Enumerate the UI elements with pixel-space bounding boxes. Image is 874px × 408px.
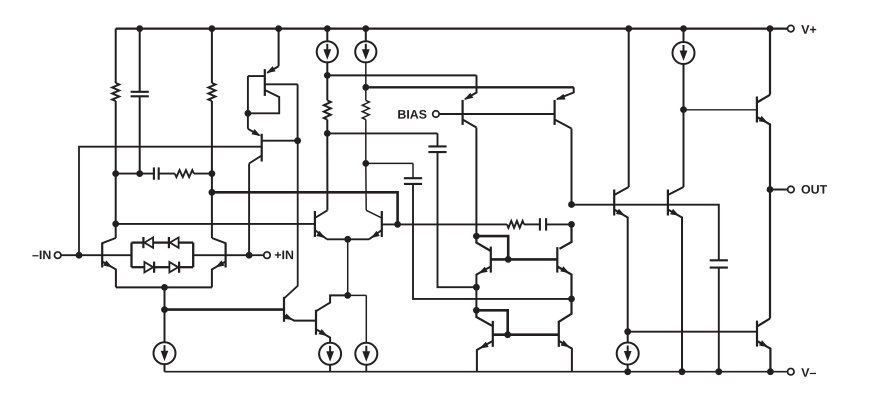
transistor Q6 (462, 100, 464, 125)
wire: R3 node to compensation cap C2 (327, 132, 437, 134)
capacitor C2 (428, 145, 446, 147)
node: Q9/C3 junction (568, 296, 575, 303)
wire: Q6/Q7 shared base (463, 113, 555, 115)
node: Q10 collector (473, 307, 480, 314)
wire: I2 node to Q6 emitter (327, 74, 476, 76)
wire: QM2 collector (683, 110, 685, 187)
wire: Q2 base to clamp network (193, 254, 225, 256)
wire: QM1 emitter to QO2 base (628, 331, 757, 333)
resistor R1 (115, 29, 117, 83)
resistor R2 (209, 25, 216, 32)
transistor Q11 (559, 299, 572, 322)
resistor R6 series (398, 223, 507, 225)
current source I5 (627, 332, 629, 343)
node: Q10 base junction (504, 331, 511, 338)
node: I4 output (680, 106, 687, 113)
wire: Q8/Q9 shared base (491, 258, 558, 261)
node: R3 bottom (324, 130, 331, 137)
current source I3 (362, 25, 369, 32)
wire: Q8 base-collector loop (476, 236, 508, 259)
transistor QM1 (613, 190, 615, 216)
node: R4 bottom (362, 160, 369, 167)
wire: V+ top supply rail (116, 27, 788, 29)
wire: QL/QR emitter bus (327, 238, 369, 240)
transistor Q3 (275, 25, 282, 32)
wire: input pair emitter bus (116, 286, 212, 288)
wire: R3 bottom to QL collector (326, 133, 328, 210)
node: Q3 collector junction (245, 110, 252, 117)
capacitor C6 (710, 259, 728, 261)
transistor QB (315, 310, 317, 335)
node: Q4 base junction (294, 137, 301, 144)
node: tail junction (161, 284, 168, 291)
transistor Q2 (225, 242, 227, 267)
wire: second stage tail (344, 292, 351, 299)
wire: node N2 to second stage (right base feed) (212, 192, 398, 224)
wire: R2 bottom to node N2 (211, 101, 213, 238)
terminal V- (788, 368, 795, 375)
node: Q8 collector (473, 233, 480, 240)
capacitor C4 series (539, 218, 541, 230)
node: I3 output (362, 84, 369, 91)
wire: Q7 collector line to C6 (572, 205, 719, 261)
wire: QR base (382, 223, 398, 225)
transistor QO2 (769, 190, 771, 319)
wire: R4 node to compensation cap C3 (366, 162, 413, 164)
diode D4 (178, 262, 180, 273)
wire: Q10/Q11 shared base (493, 333, 559, 336)
wire: Q3 collector (248, 90, 279, 113)
node: C6 bottom on rail (715, 368, 722, 375)
wire: tail down to current source I1 (164, 287, 166, 342)
resistor R3 (326, 75, 328, 100)
transistor QM2 (667, 190, 669, 216)
wire: Q1 base to clamp network (102, 254, 131, 256)
wire: inverting input to Q4 base bar (79, 147, 262, 256)
wire: Q4 collector down to +IN node (249, 156, 262, 164)
wire: first stage output to QL base (116, 223, 315, 225)
node: Q8 emitter / C2 junction (473, 284, 480, 291)
wire: Q3 base-collector tie left loop (248, 75, 265, 77)
transistor QA (283, 297, 285, 322)
resistor R4 (362, 100, 369, 119)
transistor Q1 (101, 242, 103, 267)
wire: C3 bottom to Q9 emitter node (413, 184, 572, 299)
current source I4 (680, 25, 687, 32)
transistor QR (381, 211, 383, 237)
resistor R5 series (159, 173, 175, 175)
transistor Q8 (476, 236, 490, 251)
transistor Q9 (560, 224, 572, 248)
wire: V- bottom supply rail (165, 371, 788, 373)
current source I3b (355, 343, 377, 365)
node N1 junction dots (112, 170, 119, 177)
wire: tail node to QA base (165, 308, 285, 311)
diode clamp network box (130, 243, 132, 268)
wire: QA emitter to QB base (294, 320, 317, 322)
capacitor C1 (136, 25, 143, 32)
terminal BIAS (398, 110, 406, 119)
node: OUT junction (767, 186, 774, 193)
wire: C2 bottom to Q8 emitter node (438, 152, 477, 287)
transistor Q7 (553, 100, 555, 125)
wire: I3 node to Q7 emitter (366, 86, 574, 88)
wire: Q4 base (262, 140, 298, 142)
node: QM1 emitter junction (624, 328, 631, 335)
current source I2b (319, 343, 341, 365)
diode D2 (168, 237, 170, 248)
node: -IN junction (76, 252, 83, 259)
wire: Q7 collector (555, 120, 572, 129)
capacitor C5 series (116, 173, 154, 175)
node: I2 output (324, 72, 331, 79)
terminal -IN (32, 255, 38, 256)
node: QR base junction (394, 221, 401, 228)
current source I1 (154, 342, 176, 364)
wire: R4 bottom to QR collector (365, 163, 367, 210)
node: +IN junction (246, 252, 253, 259)
wire: QO1 collector to V+ (769, 29, 771, 95)
node: Q8 base junction (505, 256, 512, 263)
transistor QO1 (756, 97, 758, 123)
wire: Q3 base to Q4 base node (265, 83, 298, 85)
transistor Q10 (476, 310, 492, 326)
capacitor C3 (404, 177, 422, 179)
wire: QM1 collector to V+ (628, 29, 630, 187)
wire: I4 to QO1 base (684, 109, 757, 111)
diode D3 (153, 262, 155, 273)
terminal +IN (249, 254, 264, 256)
transistor QL (314, 211, 316, 237)
wire: R1 bottom to node N1 (115, 101, 117, 238)
terminal V+ (788, 25, 795, 32)
wire: Q10 base-collector loop (476, 310, 507, 334)
wire: Q6 collector (463, 120, 477, 128)
current source I2 (324, 25, 331, 32)
terminal OUT (770, 189, 787, 191)
transistor Q4 (247, 113, 249, 129)
node: x-chain junctions (568, 201, 575, 208)
diode D1 (142, 237, 144, 248)
